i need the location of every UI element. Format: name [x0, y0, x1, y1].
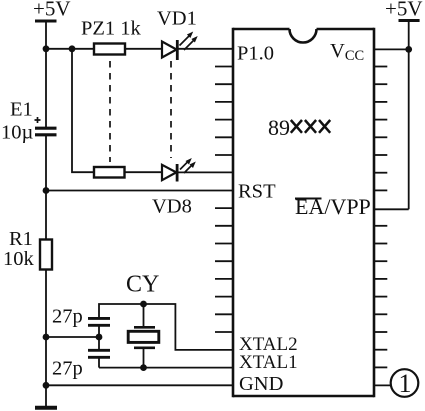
wire: right +5V vertical rail — [408, 21, 410, 210]
pin stub R16 — [374, 313, 387, 315]
+5V supply symbol (right) — [399, 19, 420, 22]
capacitor 27p (lower) — [88, 350, 110, 367]
wire: rail segment R1 to ground — [45, 270, 47, 408]
wire: rail to 27p midpoint — [46, 336, 99, 338]
svg-text:10k: 10k — [3, 248, 35, 270]
wire: XTAL2 net (caps top / crystal top to IC) — [99, 304, 233, 350]
pin stub L3 — [215, 83, 233, 85]
pin stub L13 — [215, 260, 233, 262]
LED VD1 — [162, 32, 198, 61]
node: GND net junction on rail — [43, 382, 50, 389]
node: crystal top junction — [140, 301, 147, 308]
crystal CY — [128, 304, 159, 368]
node: capacitor midpoint junction on rail — [43, 334, 50, 341]
pin stub L4 — [215, 101, 233, 103]
LED VD8 — [162, 158, 196, 182]
wire: left rail top segment (+5V bar to E1 top plate) — [45, 21, 47, 128]
node: 27p midpoint junction — [96, 334, 103, 341]
svg-text:10µ: 10µ — [1, 122, 34, 144]
pin stub R11 — [374, 225, 387, 227]
pin stub R18 — [374, 349, 387, 351]
pin stub L11 — [215, 225, 233, 227]
pin stub L15 — [215, 296, 233, 298]
svg-text:RST: RST — [238, 181, 276, 203]
node: crystal bottom junction — [140, 364, 147, 371]
pin stub R12 — [374, 243, 387, 245]
svg-text:89: 89 — [268, 115, 290, 140]
resistor PZ1 (top) — [94, 44, 125, 55]
ground — [35, 406, 57, 410]
pin stub R8 — [374, 172, 387, 174]
pin stub L16 — [215, 313, 233, 315]
pin stub R9 — [374, 189, 387, 191]
svg-text:27p: 27p — [52, 358, 83, 380]
wire: VCC net from IC pin to +5V rail — [374, 48, 409, 50]
pin stub R4 — [374, 101, 387, 103]
wire: GND net — [46, 384, 233, 386]
pin stub R6 — [374, 136, 387, 138]
node: branch junction to lower LED row — [69, 45, 76, 52]
wire: XTAL1 net — [99, 367, 233, 369]
capacitor E1 (electrolytic) — [35, 117, 57, 135]
pin stub L12 — [215, 243, 233, 245]
pin stub R5 — [374, 119, 387, 121]
svg-text:CY: CY — [126, 272, 159, 298]
svg-text:1: 1 — [399, 369, 412, 398]
pin stub R20 (to pad 1) — [374, 384, 391, 386]
resistor (lower PZ row) — [94, 167, 125, 178]
pin stub R3 — [374, 83, 387, 85]
wire: RST net — [46, 190, 233, 192]
pin stub R15 — [374, 296, 387, 298]
wire: branch down to lower LED row — [72, 49, 94, 172]
svg-text:PZ1 1k: PZ1 1k — [81, 18, 142, 40]
wire: EA/VPP net — [374, 208, 409, 210]
capacitor 27p (upper) — [88, 318, 110, 350]
IC U1 89xxx body — [233, 28, 374, 398]
dashed continuation line (LED column) — [170, 61, 172, 158]
resistor R1 — [40, 240, 52, 270]
pin stub R7 — [374, 154, 387, 156]
svg-text:E1: E1 — [10, 99, 33, 121]
dashed continuation line (resistor column) — [109, 61, 111, 162]
pin stub R19 — [374, 366, 387, 368]
wire: top LED row horizontal (rail to PZ1) — [46, 48, 94, 50]
svg-text:VD8: VD8 — [152, 196, 192, 218]
node: rail / LED-row junction — [43, 45, 50, 52]
wire: VD1 cathode to IC pin P1.0 — [177, 48, 233, 50]
svg-text:27p: 27p — [52, 306, 83, 328]
wire: rail segment E1 to R1 — [45, 135, 47, 240]
pin stub R17 — [374, 331, 387, 333]
wire: VD8 cathode to IC — [177, 171, 233, 173]
IC left pin stubs — [215, 67, 233, 333]
wire: PZ1 to VD1 anode — [125, 48, 162, 50]
wire: lower resistor to VD8 anode — [125, 171, 163, 173]
svg-text:+5V: +5V — [385, 0, 423, 21]
IC right pin stubs — [374, 67, 391, 386]
pin stub L6 — [215, 136, 233, 138]
svg-text:XTAL1: XTAL1 — [239, 352, 298, 373]
connector pad 1 (circled 1) — [391, 369, 419, 397]
pin stub R2 — [374, 66, 387, 68]
pin stub L17 — [215, 331, 233, 333]
pin stub L7 — [215, 154, 233, 156]
svg-text:GND: GND — [239, 373, 283, 395]
svg-text:R1: R1 — [9, 228, 33, 250]
pin stub L10 — [215, 207, 233, 209]
pin stub R14 — [374, 278, 387, 280]
+5V supply symbol (left) — [35, 20, 57, 23]
pin stub R13 — [374, 260, 387, 262]
svg-text:+5V: +5V — [33, 0, 71, 21]
pin stub L5 — [215, 119, 233, 121]
pin stub L2 — [215, 66, 233, 68]
pin stub L14 — [215, 278, 233, 280]
svg-text:VD1: VD1 — [157, 8, 197, 30]
svg-text:P1.0: P1.0 — [237, 43, 274, 65]
node: VCC junction — [405, 46, 412, 53]
node: RST junction — [43, 187, 50, 194]
